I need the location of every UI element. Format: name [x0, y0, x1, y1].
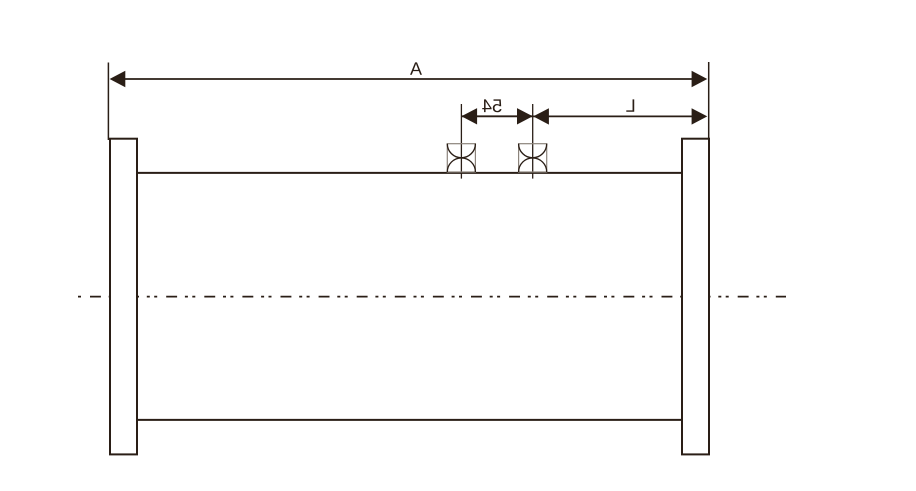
- bearing square 1: [447, 144, 475, 172]
- label 54 (mirrored): [482, 99, 501, 112]
- dimension line 54: [461, 115, 532, 117]
- bearing square 2 bottom arc: [519, 158, 547, 172]
- dimension line L: [533, 115, 695, 117]
- label L (mirrored): [626, 99, 634, 111]
- bearing square 1 top arc: [447, 144, 475, 158]
- bearing square 1 bottom arc: [447, 158, 475, 172]
- arrowhead A right: [692, 71, 708, 87]
- arrowhead 54 left: [461, 108, 477, 124]
- centerline (dash-dot-dot axis): [78, 296, 786, 298]
- bearing square 2 top arc: [519, 144, 547, 158]
- extension line right (dim A / dim L): [708, 62, 710, 140]
- arrowhead L right: [692, 108, 708, 124]
- arrowhead L left: [533, 108, 549, 124]
- cylinder body top line: [136, 172, 683, 174]
- bearing square 1 centerline: [460, 104, 462, 179]
- right flange: [682, 139, 709, 455]
- extension line left (dim A): [107, 63, 109, 141]
- arrowhead 54 right: [517, 108, 533, 124]
- label A: [410, 62, 422, 74]
- left flange: [110, 139, 137, 455]
- bearing square 2 centerline: [532, 104, 534, 179]
- cylinder body bottom line: [136, 419, 683, 421]
- dimension line A: [122, 78, 695, 80]
- arrowhead A left: [110, 71, 126, 87]
- bearing square 2: [519, 144, 547, 172]
